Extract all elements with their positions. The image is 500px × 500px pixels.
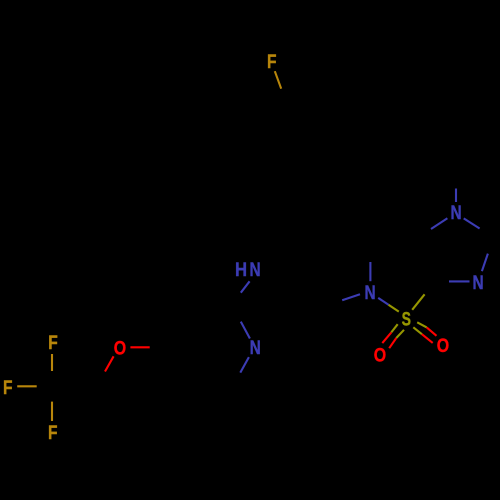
svg-text:F: F xyxy=(48,422,58,444)
svg-text:O: O xyxy=(374,344,386,366)
svg-text:N: N xyxy=(364,281,375,303)
svg-text:S: S xyxy=(402,309,411,331)
svg-text:O: O xyxy=(114,337,126,359)
svg-text:N: N xyxy=(472,271,483,293)
svg-text:F: F xyxy=(3,377,13,399)
svg-text:N: N xyxy=(250,258,261,280)
svg-text:H: H xyxy=(235,259,247,280)
svg-text:N: N xyxy=(451,202,462,224)
svg-text:O: O xyxy=(437,334,449,356)
svg-text:F: F xyxy=(48,332,58,354)
svg-text:N: N xyxy=(250,337,261,359)
svg-text:F: F xyxy=(267,51,277,73)
